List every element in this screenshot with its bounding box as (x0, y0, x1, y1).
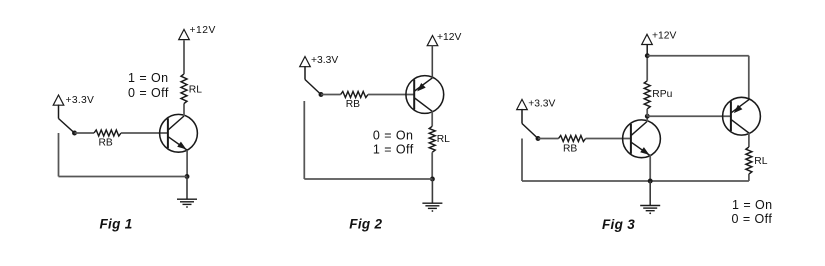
resistor RL (Fig 1) (181, 74, 187, 104)
resistor RB (Fig 1) (94, 130, 121, 136)
transistor Q1 Fig 2 (406, 76, 444, 114)
svg-text:Fig 3: Fig 3 (602, 217, 635, 232)
svg-text:1 = On: 1 = On (128, 71, 169, 85)
node: switch junction (Fig 2) (319, 92, 324, 97)
wire: +3.3V stem (Fig 2) (304, 66, 306, 80)
svg-text:RL: RL (437, 134, 450, 145)
svg-text:Fig 2: Fig 2 (349, 216, 382, 231)
transistor Q1 Fig 3 (623, 120, 661, 158)
wire: collector lead to node (Fig 3) (646, 116, 648, 121)
wire: switch blade (Fig 3) (522, 124, 538, 139)
wire: bottom rail (Fig 1) (59, 176, 188, 178)
wire: switch blade (Fig 2) (305, 80, 321, 95)
wire: collector lead (Fig 2) (431, 111, 433, 126)
svg-text:+3.3V: +3.3V (528, 99, 555, 110)
node: emitter/ground junction (Fig 3) (648, 179, 653, 184)
svg-text:+12V: +12V (652, 31, 676, 42)
wire: +12V stem (Fig 3) (646, 44, 648, 55)
wire: RL to bottom rail (Fig 2) (431, 152, 433, 179)
ground (Fig 1) (177, 198, 197, 200)
svg-text:+12V: +12V (190, 25, 216, 36)
resistor RB (Fig 2) (341, 92, 368, 98)
svg-text:0 = Off: 0 = Off (128, 86, 169, 100)
wire: RL to +12V (Fig 1) (183, 40, 185, 74)
svg-text:+3.3V: +3.3V (311, 55, 338, 66)
power terminal +12V (Fig 3) (642, 34, 653, 44)
wire: ground stem (Fig 3) (649, 181, 651, 206)
ground (Fig 2) (422, 202, 442, 204)
svg-text:1 = On: 1 = On (732, 198, 773, 212)
svg-text:RL: RL (189, 85, 202, 96)
power terminal +12V (Fig 2) (427, 36, 438, 46)
wire: left vertical (Fig 3) (521, 139, 523, 182)
wire: collector lead (Fig 1) (183, 104, 185, 117)
wire: bottom rail (Fig 2) (304, 178, 432, 180)
wire: +3.3V stem (Fig 3) (521, 109, 523, 124)
wire: RB to base (Fig 1) (121, 132, 168, 134)
svg-text:Fig 1: Fig 1 (100, 216, 133, 231)
transistor Q1 Fig 1 (160, 114, 198, 152)
wire: top rail (Fig 3) (647, 55, 749, 57)
resistor RB (Fig 3) (559, 136, 586, 142)
resistor RPu (Fig 3) (644, 81, 650, 109)
svg-text:RL: RL (754, 156, 767, 167)
svg-text:RB: RB (99, 138, 113, 149)
power terminal +3.3V (Fig 2) (300, 57, 311, 67)
svg-text:+12V: +12V (437, 32, 461, 43)
node: RPu/collector/base junction (Fig 3) (645, 114, 650, 119)
wire: junction to RB (Fig 3) (538, 138, 559, 140)
wire: left vertical (Fig 2) (303, 101, 305, 179)
wire: junction to RB (Fig 1) (75, 132, 95, 134)
wire: ground stem (Fig 1) (186, 177, 188, 200)
wire: +3.3V stem (Fig 1) (58, 105, 60, 119)
node: emitter/ground junction (Fig 1) (185, 174, 190, 179)
wire: switch blade (Fig 1) (59, 119, 75, 134)
wire: ground stem (Fig 2) (431, 179, 433, 203)
wire: RL to bottom rail (Fig 3) (748, 174, 750, 181)
wire: RB to base (Fig 3) (586, 138, 632, 140)
svg-text:RB: RB (563, 144, 577, 155)
ground (Fig 3) (640, 205, 660, 207)
svg-text:1 = Off: 1 = Off (373, 143, 414, 157)
transistor Q2 Fig 3 (723, 97, 761, 135)
wire: node to Q2 base (Fig 3) (647, 115, 731, 117)
svg-text:0 = On: 0 = On (373, 128, 414, 142)
node: bottom junction (Fig 2) (430, 177, 435, 182)
wire: RB to base (Fig 2) (368, 94, 414, 96)
node: switch junction (Fig 1) (72, 131, 77, 136)
svg-text:+3.3V: +3.3V (66, 95, 95, 106)
power terminal +12V (Fig 1) (179, 29, 190, 39)
wire: Q2 collector lead (Fig 3) (748, 133, 750, 147)
wire: junction to RB (Fig 2) (321, 94, 341, 96)
wire: RPu upper lead (Fig 3) (646, 56, 648, 81)
svg-text:0 = Off: 0 = Off (732, 212, 773, 226)
node: switch junction (Fig 3) (536, 136, 541, 141)
wire: emitter lead (Fig 1) (186, 150, 188, 176)
svg-text:RB: RB (346, 99, 360, 110)
node: +12V junction (Fig 3) (645, 53, 650, 58)
wire: RPu lower lead (Fig 3) (646, 109, 648, 116)
wire: left vertical (Fig 1) (58, 133, 60, 177)
wire: bottom rail (Fig 3) (522, 180, 749, 182)
svg-text:RPu: RPu (652, 89, 672, 100)
power terminal +3.3V (Fig 3) (517, 99, 528, 109)
resistor RL (Fig 3) (746, 147, 752, 174)
power terminal +3.3V (Fig 1) (53, 95, 64, 105)
wire: Q1 emitter lead (Fig 3) (649, 155, 651, 181)
wire: +12V to emitter (Fig 2) (431, 45, 433, 78)
resistor RL (Fig 2) (429, 126, 435, 152)
wire: right vertical to Q2 emitter (Fig 3) (748, 56, 750, 100)
